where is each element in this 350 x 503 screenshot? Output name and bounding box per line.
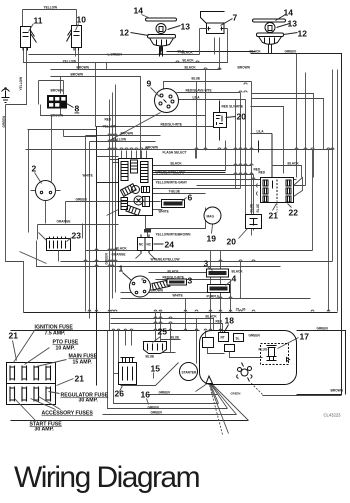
svg-text:BLACK: BLACK	[168, 270, 180, 274]
svg-text:BLACK: BLACK	[116, 247, 128, 251]
svg-text:RED/SLV-WTE: RED/SLV-WTE	[161, 123, 183, 127]
svg-text:BROWN: BROWN	[146, 146, 159, 150]
svg-text:GREEN: GREEN	[151, 411, 163, 415]
svg-text:2: 2	[32, 164, 37, 174]
svg-text:9: 9	[147, 79, 152, 89]
svg-text:4: 4	[232, 274, 237, 284]
svg-text:3: 3	[188, 276, 193, 286]
svg-text:L.GREEN: L.GREEN	[108, 53, 123, 57]
svg-text:T-BLUE: T-BLUE	[169, 190, 181, 194]
svg-text:30 AMP.: 30 AMP.	[79, 398, 99, 404]
svg-text:6: 6	[188, 193, 193, 203]
svg-text:GREEN: GREEN	[317, 327, 329, 331]
svg-text:21: 21	[9, 331, 19, 341]
svg-text:20: 20	[227, 237, 237, 247]
svg-text:CL43223: CL43223	[324, 413, 342, 418]
svg-text:RED: RED	[216, 320, 223, 324]
svg-text:GREEN: GREEN	[2, 115, 6, 127]
svg-text:BLUE: BLUE	[192, 77, 201, 81]
svg-text:MAG: MAG	[207, 215, 215, 219]
svg-text:LILA: LILA	[257, 130, 265, 134]
svg-text:ORANGE: ORANGE	[57, 220, 71, 224]
svg-text:BROWN: BROWN	[151, 289, 164, 293]
svg-text:15 - 30: 15 - 30	[236, 308, 246, 312]
svg-text:BLACK: BLACK	[206, 315, 218, 319]
svg-text:SL: SL	[236, 337, 240, 341]
svg-text:STARTER: STARTER	[182, 371, 198, 375]
svg-text:WTE/BLK/YELLOW: WTE/BLK/YELLOW	[151, 258, 180, 262]
svg-text:LILA: LILA	[193, 96, 201, 100]
svg-text:BLUE: BLUE	[171, 336, 180, 340]
svg-text:YELLOW: YELLOW	[113, 138, 127, 142]
svg-text:NC: NC	[139, 243, 144, 247]
svg-text:22: 22	[289, 208, 299, 218]
svg-text:26: 26	[115, 389, 125, 399]
svg-text:Wiring Diagram: Wiring Diagram	[14, 461, 200, 494]
svg-text:18: 18	[225, 316, 235, 326]
svg-text:PLUG: PLUG	[259, 348, 268, 352]
svg-text:YELLOW: YELLOW	[44, 6, 58, 10]
svg-text:GREEN: GREEN	[105, 252, 109, 264]
svg-text:7: 7	[233, 13, 238, 23]
svg-text:12: 12	[298, 29, 308, 39]
svg-text:21: 21	[75, 374, 85, 384]
svg-text:GREEN: GREEN	[249, 334, 261, 338]
svg-text:24: 24	[165, 240, 175, 250]
svg-text:PURPLE: PURPLE	[207, 295, 220, 299]
svg-text:BLACK: BLACK	[171, 162, 183, 166]
svg-text:7.5 AMP.: 7.5 AMP.	[45, 331, 66, 337]
svg-text:NC: NC	[147, 243, 152, 247]
svg-text:BROWN: BROWN	[331, 389, 344, 393]
svg-text:30 AMP.: 30 AMP.	[35, 427, 55, 433]
svg-text:BLACK: BLACK	[182, 51, 194, 55]
svg-text:YELLOW/WTE-GRAY: YELLOW/WTE-GRAY	[156, 181, 188, 185]
svg-text:BROWN: BROWN	[71, 73, 84, 77]
svg-text:15: 15	[151, 364, 161, 374]
svg-text:BLACK: BLACK	[288, 162, 300, 166]
svg-text:WTE/BLK/YELLOW: WTE/BLK/YELLOW	[156, 171, 185, 175]
svg-text:BLACK: BLACK	[232, 270, 244, 274]
svg-text:BROWN: BROWN	[121, 132, 134, 136]
svg-text:19: 19	[207, 234, 217, 244]
svg-text:NT: NT	[221, 336, 225, 340]
svg-text:GREEN: GREEN	[231, 392, 241, 396]
svg-text:8: 8	[75, 104, 80, 114]
svg-text:BLACK: BLACK	[183, 59, 195, 63]
svg-text:YELLOW: YELLOW	[63, 60, 77, 64]
svg-text:10 AMP.: 10 AMP.	[56, 346, 76, 352]
svg-text:WHITE: WHITE	[83, 174, 93, 178]
svg-text:WHITE: WHITE	[159, 210, 169, 214]
svg-text:25: 25	[158, 327, 168, 337]
svg-text:23: 23	[72, 231, 82, 241]
svg-text:GREEN: GREEN	[76, 198, 88, 202]
svg-text:BLACK: BLACK	[250, 50, 262, 54]
svg-text:GREEN: GREEN	[148, 406, 160, 410]
svg-text:15 AMP.: 15 AMP.	[73, 360, 93, 366]
svg-text:ACCESSORY FUSES: ACCESSORY FUSES	[42, 411, 94, 417]
svg-text:GREEN: GREEN	[159, 391, 171, 395]
svg-text:BLUE: BLUE	[146, 355, 155, 359]
svg-text:RED SLV-WTE: RED SLV-WTE	[222, 105, 244, 109]
svg-text:FLASH SELECT: FLASH SELECT	[163, 151, 187, 155]
svg-text:RED/SLV-WTE: RED/SLV-WTE	[163, 276, 185, 280]
svg-text:BLUE: BLUE	[256, 204, 260, 213]
svg-text:RED: RED	[105, 118, 112, 122]
svg-text:1: 1	[119, 264, 124, 274]
svg-text:BLACK: BLACK	[185, 66, 197, 70]
svg-text:14: 14	[284, 8, 294, 18]
svg-text:12: 12	[120, 28, 130, 38]
svg-text:17: 17	[300, 332, 310, 342]
svg-text:14: 14	[134, 6, 144, 16]
svg-text:11: 11	[34, 16, 43, 26]
svg-text:YELLOW/WTE/BROWN: YELLOW/WTE/BROWN	[156, 233, 192, 237]
svg-text:21: 21	[269, 211, 279, 221]
svg-text:10: 10	[77, 15, 87, 25]
svg-text:16: 16	[141, 390, 151, 400]
svg-text:BROWN: BROWN	[51, 89, 64, 93]
svg-text:YELLOW: YELLOW	[103, 125, 117, 129]
svg-text:BROWN: BROWN	[238, 66, 251, 70]
svg-text:BLUE: BLUE	[250, 204, 254, 213]
svg-text:ORANGE: ORANGE	[112, 253, 126, 257]
svg-text:GREEN: GREEN	[285, 50, 297, 54]
svg-text:YELLOW: YELLOW	[19, 77, 23, 91]
svg-text:RED: RED	[254, 168, 261, 172]
svg-text:13: 13	[181, 22, 191, 32]
svg-text:RED/SLAVE-WTE: RED/SLAVE-WTE	[186, 89, 212, 93]
svg-text:BROWN: BROWN	[77, 66, 90, 70]
svg-text:WHITE: WHITE	[173, 294, 183, 298]
svg-text:20: 20	[237, 112, 247, 122]
